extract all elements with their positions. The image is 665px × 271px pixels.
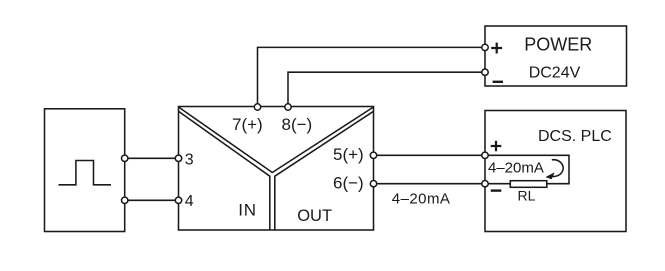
DCS plus terminal	[482, 152, 488, 158]
wire pin 8 to POWER minus	[288, 72, 485, 107]
svg-text:OUT: OUT	[297, 207, 332, 225]
terminal pin 3	[175, 155, 181, 161]
POWER supply box	[485, 26, 627, 86]
terminal pin 6	[370, 181, 376, 187]
isolator Y divider right lower arm	[275, 111, 374, 230]
DCS plus sign	[491, 141, 502, 152]
isolator Y divider left lower arm	[179, 111, 270, 230]
svg-text:7(+): 7(+)	[232, 115, 263, 134]
wire pin 5 to DCS plus	[374, 154, 486, 156]
loop arrowhead	[545, 172, 554, 179]
DCS internal current loop wire	[485, 155, 569, 183]
svg-text:3: 3	[185, 152, 194, 169]
terminal pin 8	[285, 104, 291, 110]
DCS PLC receiver box	[485, 111, 626, 232]
svg-text:DCS. PLC: DCS. PLC	[538, 128, 612, 145]
terminal on source box upper	[122, 155, 128, 161]
svg-text:4: 4	[185, 193, 194, 210]
wire pin 6 to DCS minus	[374, 183, 486, 185]
pulse waveform symbol	[59, 161, 112, 185]
POWER plus sign	[491, 43, 502, 54]
isolator Y divider upper V	[179, 107, 374, 173]
isolator U1 body	[179, 107, 374, 231]
terminal on source box lower	[122, 197, 128, 203]
terminal pin 5	[370, 152, 376, 158]
svg-text:POWER: POWER	[524, 35, 592, 55]
svg-text:IN: IN	[238, 201, 257, 220]
load resistor RL	[510, 181, 547, 188]
svg-text:4–20mA: 4–20mA	[488, 160, 544, 177]
svg-text:4–20mA: 4–20mA	[392, 191, 451, 208]
wire pulse source to pin 3	[125, 157, 179, 159]
DCS minus sign	[491, 189, 502, 191]
svg-text:DC24V: DC24V	[529, 65, 581, 82]
svg-text:5(+): 5(+)	[333, 145, 364, 164]
terminal pin 4	[175, 197, 181, 203]
POWER plus terminal	[482, 44, 488, 50]
wire pulse source to pin 4	[125, 199, 179, 201]
svg-text:6(−): 6(−)	[333, 174, 364, 193]
pulse signal source box	[45, 109, 125, 232]
svg-text:RL: RL	[518, 187, 536, 203]
DCS minus terminal	[482, 181, 488, 187]
loop direction arrow	[549, 160, 563, 177]
svg-text:8(−): 8(−)	[282, 115, 313, 134]
POWER minus sign	[493, 81, 503, 83]
terminal pin 7	[254, 104, 260, 110]
POWER minus terminal	[482, 69, 488, 75]
wire pin 7 to POWER plus	[258, 47, 486, 107]
